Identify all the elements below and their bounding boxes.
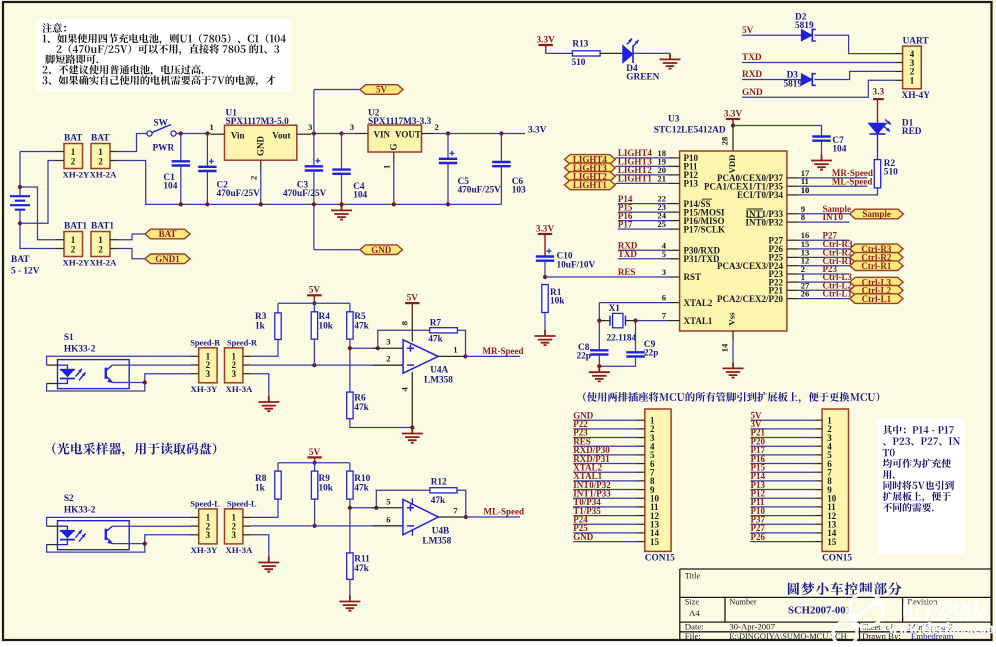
- svg-text:SCH2007-001: SCH2007-001: [788, 605, 851, 617]
- svg-text:GREEN: GREEN: [626, 73, 659, 83]
- resistor R1 10k: [542, 285, 548, 313]
- svg-text:6: 6: [662, 293, 667, 303]
- resistor R2 510: [877, 134, 879, 160]
- svg-text:8: 8: [400, 320, 410, 325]
- svg-text:RES: RES: [618, 267, 636, 277]
- svg-text:P13: P13: [684, 179, 699, 189]
- svg-text:3: 3: [206, 530, 211, 540]
- resistor R5 47k: [349, 303, 351, 312]
- crystal X1 22.1184: [599, 302, 668, 304]
- wire VDD to C7: [733, 126, 822, 137]
- svg-text:CON15: CON15: [645, 554, 675, 564]
- power 3.3V at C10: [538, 233, 552, 235]
- svg-text:5819: 5819: [795, 21, 814, 31]
- svg-text:R8: R8: [255, 474, 267, 484]
- connector Speed-R: [199, 348, 217, 383]
- ground rail: [119, 161, 502, 205]
- resistor R13 510: [546, 52, 573, 54]
- svg-text:INT0/P32: INT0/P32: [745, 217, 783, 227]
- feedback resistor R7 47k: [378, 330, 430, 348]
- svg-text:BAT: BAT: [91, 134, 110, 144]
- svg-text:103: 103: [512, 186, 526, 196]
- svg-text:470uF/25V: 470uF/25V: [283, 189, 327, 199]
- svg-text:R10: R10: [354, 474, 370, 484]
- svg-text:XH-3A: XH-3A: [226, 384, 254, 394]
- resistor R11 47k: [349, 508, 351, 553]
- power 3.3V at R13: [539, 44, 553, 46]
- svg-text:R6: R6: [354, 394, 366, 404]
- note box expansion pins: [877, 418, 965, 554]
- nets RXD TXD: [618, 249, 669, 251]
- connector Speed-R: [225, 348, 243, 383]
- battery BAT 5-12V: [19, 152, 21, 197]
- capacitor C4 104: [341, 134, 343, 170]
- svg-text:Size: Size: [685, 598, 700, 607]
- svg-text:GND1: GND1: [155, 254, 180, 264]
- opamp U4B LM358: [373, 507, 403, 509]
- opamp U4A LM358: [373, 347, 403, 349]
- svg-text:3.3V: 3.3V: [536, 224, 555, 234]
- svg-text:VDD: VDD: [727, 154, 737, 173]
- wire Speed-L pin3 to ground: [251, 535, 269, 557]
- notes text box: [37, 19, 292, 91]
- svg-text:Speed-R: Speed-R: [190, 339, 221, 348]
- pin U2 GND to rail: [393, 152, 395, 162]
- power 5V at R8-R10: [307, 456, 321, 458]
- svg-text:LM358: LM358: [424, 376, 453, 386]
- wire S1 pin1 top: [47, 364, 58, 366]
- resistor R8 1k: [277, 463, 279, 471]
- svg-text:STC12LE5412AD: STC12LE5412AD: [654, 126, 726, 136]
- power 5V at U4A: [405, 302, 419, 304]
- svg-text:104: 104: [832, 145, 846, 155]
- svg-text:5: 5: [386, 496, 390, 506]
- net RES wire: [545, 276, 668, 278]
- svg-text:5V: 5V: [407, 294, 419, 304]
- connector Speed-L: [225, 509, 243, 544]
- svg-text:XH-3Y: XH-3Y: [191, 384, 219, 394]
- svg-text:1: 1: [71, 235, 76, 245]
- svg-text:Speed-L: Speed-L: [190, 500, 220, 509]
- wire noninverting row U4B: [350, 507, 376, 509]
- svg-text:4: 4: [400, 386, 410, 391]
- svg-text:6: 6: [386, 514, 391, 524]
- capacitor C9 22p: [635, 321, 637, 353]
- resistor R3 1k: [277, 303, 279, 313]
- svg-text:Vin: Vin: [231, 130, 245, 140]
- svg-text:HK33-2: HK33-2: [64, 345, 96, 355]
- svg-text:BAT1: BAT1: [64, 222, 87, 232]
- svg-text:10uF/10V: 10uF/10V: [557, 261, 596, 271]
- svg-text:BAT: BAT: [159, 229, 177, 239]
- svg-text:5819: 5819: [784, 80, 803, 90]
- capacitor C5 470uF/25V: [447, 134, 449, 159]
- svg-text:XH-3A: XH-3A: [226, 545, 254, 555]
- connector BAT XH-2Y: [64, 144, 83, 169]
- svg-text:GND: GND: [742, 88, 763, 98]
- svg-text:BAT: BAT: [64, 134, 83, 144]
- svg-text:5V: 5V: [742, 26, 754, 36]
- resistor R10 47k: [349, 463, 351, 471]
- svg-text:22p: 22p: [577, 352, 591, 362]
- svg-text:104: 104: [163, 182, 177, 192]
- svg-text:RST: RST: [684, 272, 702, 282]
- svg-text:14: 14: [720, 343, 730, 352]
- svg-text:MR-Speed: MR-Speed: [483, 346, 524, 356]
- capacitor C8 22p: [598, 321, 600, 351]
- svg-text:Speed-R: Speed-R: [227, 339, 258, 348]
- svg-text:30-Apr-2007: 30-Apr-2007: [729, 622, 775, 632]
- svg-text:47k: 47k: [354, 564, 369, 574]
- svg-text:X1: X1: [609, 304, 621, 314]
- svg-text:HK33-2: HK33-2: [64, 506, 96, 516]
- svg-text:File:: File:: [685, 631, 701, 641]
- svg-text:GND: GND: [573, 532, 594, 542]
- svg-text:47k: 47k: [431, 496, 446, 506]
- capacitor C7 104: [812, 137, 830, 141]
- svg-text:Speed-L: Speed-L: [227, 500, 257, 509]
- svg-text:SPX1117M3-3.3: SPX1117M3-3.3: [368, 117, 432, 127]
- nets P14-P17: [618, 203, 669, 205]
- svg-text:3: 3: [386, 337, 390, 347]
- net P23: [798, 273, 849, 275]
- switch SW PWR: [119, 134, 147, 152]
- regulator U1 SPX1117M3-5.0: [225, 125, 297, 160]
- svg-text:5V: 5V: [309, 286, 321, 296]
- svg-text:Date:: Date:: [685, 622, 704, 632]
- port GND1: [119, 249, 146, 259]
- svg-text:5V: 5V: [309, 448, 321, 458]
- svg-text:RED: RED: [902, 127, 922, 137]
- wire Speed-L pin2 to opamp: [251, 525, 403, 527]
- caption MCU expansion: [583, 392, 879, 403]
- svg-text:28: 28: [720, 136, 730, 145]
- capacitor C10 10uF/10V: [536, 257, 554, 261]
- watermark elecfans logo: [833, 593, 883, 646]
- svg-text:5 - 12V: 5 - 12V: [11, 267, 40, 277]
- resistor R9 10k: [314, 463, 316, 471]
- svg-text:2: 2: [98, 157, 103, 167]
- wire SW to U1 Vin: [176, 133, 211, 135]
- svg-text:3: 3: [231, 530, 236, 540]
- svg-text:104: 104: [353, 191, 367, 201]
- svg-text:INT0: INT0: [823, 212, 844, 222]
- pin U1 GND to rail: [260, 160, 262, 170]
- caption photo sensor: [52, 442, 216, 456]
- nets MR-Speed ML-Speed P34: [798, 177, 867, 179]
- svg-text:UART: UART: [903, 37, 930, 47]
- svg-text:E:\DINGQIYA\SUMO-MCU.SCH: E:\DINGQIYA\SUMO-MCU.SCH: [729, 632, 847, 641]
- wire battery+ to BAT pin1: [20, 151, 56, 153]
- svg-text:Title: Title: [685, 572, 701, 581]
- svg-text:2: 2: [386, 354, 390, 364]
- svg-text:2: 2: [249, 176, 259, 180]
- svg-text:U4B: U4B: [432, 527, 450, 537]
- wire battery- to BAT pin2: [20, 161, 56, 224]
- svg-text:470uF/25V: 470uF/25V: [217, 189, 261, 199]
- svg-text:10k: 10k: [319, 484, 334, 494]
- svg-text:3: 3: [350, 122, 354, 132]
- svg-text:1k: 1k: [255, 484, 266, 494]
- port BAT: [119, 234, 146, 240]
- svg-text:A4: A4: [689, 608, 700, 618]
- svg-text:2: 2: [435, 122, 439, 132]
- svg-text:U4A: U4A: [430, 366, 448, 376]
- svg-text:Ctrl-L1: Ctrl-L1: [862, 294, 892, 304]
- svg-text:XH-2A: XH-2A: [90, 258, 118, 268]
- svg-text:Vss: Vss: [727, 312, 737, 326]
- capacitor C3 470uF/25V: [313, 134, 315, 167]
- svg-text:XTAL2: XTAL2: [684, 298, 713, 308]
- wire Speed-R pin3 to ground: [251, 374, 269, 396]
- connector CON15 left: [645, 409, 671, 551]
- svg-text:SW: SW: [154, 119, 169, 129]
- svg-text:1: 1: [910, 76, 915, 86]
- svg-text:510: 510: [884, 168, 898, 178]
- svg-text:RXD: RXD: [742, 70, 762, 80]
- title block: [680, 569, 992, 640]
- svg-text:10k: 10k: [319, 322, 334, 332]
- svg-text:3.3: 3.3: [872, 88, 884, 98]
- wire noninverting row: [350, 347, 378, 349]
- svg-text:Vout: Vout: [272, 130, 290, 140]
- pin 14 Vss ground: [732, 331, 734, 340]
- svg-text:TXD: TXD: [742, 53, 762, 63]
- capacitor C1 104: [180, 134, 182, 162]
- wire battery+ to BAT1 pin1: [20, 187, 56, 240]
- svg-text:P26: P26: [751, 532, 766, 542]
- svg-text:R5: R5: [354, 312, 366, 322]
- svg-text:3: 3: [206, 369, 211, 379]
- wire U2 out 3.3V: [434, 133, 525, 135]
- svg-text:3.3V: 3.3V: [724, 109, 743, 119]
- resistor R6 47k: [349, 348, 351, 392]
- MCU U3 STC12LE5412AD: [680, 151, 787, 331]
- port 5V top: [313, 90, 315, 134]
- svg-text:R7: R7: [430, 319, 442, 329]
- wire Speed-R pin1 to R3: [251, 340, 278, 357]
- svg-text:ML-Speed: ML-Speed: [832, 176, 873, 186]
- wire S2 pin2 collector: [112, 525, 190, 527]
- ground at crystal: [599, 365, 635, 367]
- capacitor C2 470uF/25V: [206, 134, 208, 167]
- svg-text:ECI/T0/P34: ECI/T0/P34: [737, 190, 784, 200]
- svg-text:47k: 47k: [354, 403, 369, 413]
- port Sample: [798, 213, 850, 215]
- svg-text:BAT: BAT: [11, 255, 30, 265]
- svg-text:1: 1: [71, 147, 76, 157]
- svg-text:SPX1117M3-5.0: SPX1117M3-5.0: [226, 117, 290, 127]
- connector CON15 right: [822, 409, 848, 551]
- svg-text:VOUT: VOUT: [395, 129, 421, 139]
- connector BAT1 XH-2Y: [64, 232, 83, 257]
- svg-text:510: 510: [572, 58, 586, 68]
- svg-text:22p: 22p: [644, 349, 658, 359]
- svg-text:LM358: LM358: [422, 537, 451, 547]
- svg-text:10k: 10k: [550, 297, 565, 307]
- power 3.3V at MCU VDD: [726, 118, 740, 120]
- net ML-Speed output: [438, 516, 466, 518]
- svg-text:1: 1: [382, 165, 392, 169]
- svg-text:3.3V: 3.3V: [537, 35, 556, 45]
- svg-text:R11: R11: [354, 555, 370, 565]
- net P27: [798, 239, 849, 241]
- svg-text:P17: P17: [618, 219, 633, 229]
- net MR-Speed output: [438, 355, 465, 357]
- svg-text:R3: R3: [255, 312, 267, 322]
- feedback resistor R12 47k: [376, 490, 430, 508]
- port GND: [313, 204, 315, 249]
- svg-text:S1: S1: [64, 333, 74, 343]
- svg-text:XH-3Y: XH-3Y: [191, 545, 219, 555]
- svg-text:1k: 1k: [255, 322, 266, 332]
- ports LIGHT4-LIGHT1: [615, 157, 668, 159]
- svg-text:XH-4Y: XH-4Y: [902, 91, 931, 101]
- svg-text:Ctrl-R1: Ctrl-R1: [861, 261, 891, 271]
- LED D4 GREEN: [600, 52, 623, 54]
- MCU right pins: [787, 177, 798, 179]
- svg-text:BAT1: BAT1: [91, 222, 114, 232]
- wire U1 out node: [311, 133, 342, 135]
- diode D2 5819: [742, 34, 801, 36]
- svg-text:R13: R13: [572, 40, 588, 50]
- svg-text:47k: 47k: [428, 335, 443, 345]
- svg-text:R4: R4: [319, 312, 331, 322]
- connector BAT1 XH-2A: [91, 232, 110, 257]
- ports Ctrl-R3 R2 R1: [798, 248, 850, 250]
- svg-text:LIGHT1: LIGHT1: [573, 180, 608, 190]
- svg-text:P31/TXD: P31/TXD: [684, 254, 721, 264]
- svg-text:G: G: [389, 143, 399, 150]
- svg-text:P17/SCLK: P17/SCLK: [684, 224, 726, 234]
- svg-text:Number: Number: [729, 598, 757, 607]
- wire S2 pin1 top: [47, 525, 58, 527]
- svg-text:Sample: Sample: [862, 209, 891, 219]
- svg-text:2: 2: [98, 245, 103, 255]
- svg-text:PCA2/CEX2/P20: PCA2/CEX2/P20: [717, 294, 783, 304]
- svg-text:R9: R9: [319, 474, 331, 484]
- svg-text:47k: 47k: [354, 484, 369, 494]
- opamp U4A V- pin 4: [411, 372, 413, 428]
- svg-text:CON15: CON15: [822, 554, 852, 564]
- svg-text:www.elecfans.com: www.elecfans.com: [888, 621, 996, 637]
- svg-text:10: 10: [801, 185, 810, 195]
- ground at D4: [633, 52, 670, 54]
- svg-text:LIGHT1: LIGHT1: [618, 174, 653, 184]
- LED D1 RED: [868, 123, 886, 134]
- pin 28 VDD: [732, 126, 734, 152]
- svg-text:XH-2Y: XH-2Y: [63, 170, 91, 180]
- svg-text:GND: GND: [371, 245, 392, 255]
- svg-text:3: 3: [662, 267, 666, 277]
- wire Speed-L pin1 to R8: [251, 499, 278, 517]
- svg-text:7: 7: [662, 311, 667, 321]
- svg-text:22.1184: 22.1184: [607, 334, 637, 344]
- resistor R4 10k: [313, 303, 315, 312]
- net INT0: [798, 221, 849, 223]
- MCU left pins: [668, 157, 679, 159]
- svg-text:GND: GND: [256, 136, 266, 157]
- svg-text:5V: 5V: [376, 85, 388, 95]
- svg-text:2: 2: [71, 245, 76, 255]
- svg-text:7: 7: [453, 505, 458, 515]
- connector Speed-L: [199, 509, 217, 544]
- svg-text:470uF/25V: 470uF/25V: [458, 186, 502, 196]
- svg-text:R12: R12: [431, 478, 447, 488]
- wire S1 pin2 collector: [112, 364, 190, 366]
- svg-text:15: 15: [650, 537, 660, 547]
- svg-text:2: 2: [71, 157, 76, 167]
- svg-text:1: 1: [98, 235, 103, 245]
- capacitor C6 103: [500, 134, 502, 163]
- power 5V at R3-R5: [307, 294, 321, 296]
- svg-text:1: 1: [98, 147, 103, 157]
- connector UART XH-4Y: [903, 46, 922, 89]
- wire S2 pin3 emitter: [112, 543, 144, 545]
- ports Ctrl-L3 L2 L1: [798, 281, 850, 283]
- svg-text:3: 3: [231, 369, 236, 379]
- svg-text:3: 3: [308, 122, 312, 132]
- regulator U2 SPX1117M3-3.3: [368, 125, 422, 152]
- connector BAT XH-2A: [91, 144, 110, 169]
- svg-text:XH-2Y: XH-2Y: [63, 258, 91, 268]
- svg-text:VIN: VIN: [374, 129, 391, 139]
- ground symbol rail: [331, 204, 352, 219]
- svg-text:47k: 47k: [354, 322, 369, 332]
- svg-text:Ctrl-L1: Ctrl-L1: [823, 289, 853, 299]
- svg-text:XTAL1: XTAL1: [684, 316, 713, 326]
- svg-text:XH-2A: XH-2A: [90, 170, 118, 180]
- svg-text:1: 1: [453, 345, 457, 355]
- wire S1 pin3 emitter: [112, 382, 144, 384]
- svg-text:15: 15: [827, 537, 837, 547]
- svg-text:U3: U3: [668, 115, 680, 125]
- svg-text:1: 1: [210, 122, 214, 132]
- svg-text:TXD: TXD: [618, 249, 638, 259]
- svg-text:ML-Speed: ML-Speed: [484, 507, 525, 517]
- svg-text:3.3V: 3.3V: [528, 126, 547, 136]
- svg-text:S2: S2: [64, 494, 74, 504]
- svg-text:PWR: PWR: [153, 144, 175, 154]
- wire Speed-R pin2 to opamp: [251, 364, 403, 366]
